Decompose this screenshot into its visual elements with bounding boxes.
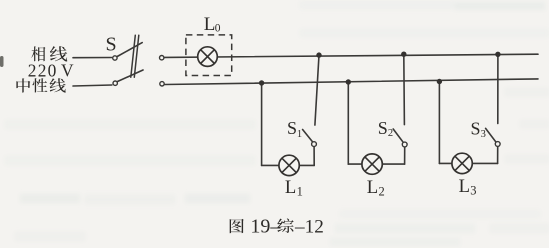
wire: neutral lead from 中性线 to switch	[73, 85, 112, 86]
branch 3: wire S3 to lamp level	[497, 147, 499, 164]
svg-text:2: 2	[388, 128, 393, 139]
branch 2: wire S2 to lamp level	[404, 147, 406, 164]
caption: 图 19-综-12	[230, 218, 294, 233]
svg-text:2: 2	[379, 184, 385, 198]
switch S pole B terminal right	[160, 82, 164, 86]
svg-text:0: 0	[215, 23, 221, 35]
switch S pole B terminal left	[113, 81, 117, 85]
svg-text:V: V	[61, 60, 74, 80]
switch S pole A terminal right	[160, 56, 164, 60]
label: 相线 (live wire)	[31, 46, 67, 61]
svg-text:S: S	[106, 34, 117, 56]
lamp L0 dashed enclosure	[186, 35, 232, 76]
switch S pole B blade	[118, 70, 144, 82]
wire: live bus (top horizontal)	[165, 54, 538, 57]
svg-text:220: 220	[28, 60, 58, 80]
lamp L2	[362, 154, 382, 174]
junction dot neutral bus / L3 riser	[437, 79, 442, 84]
branch 1: riser wire lamp to neutral bus	[261, 83, 263, 165]
switch S pole A blade	[117, 43, 142, 57]
svg-text:L: L	[204, 14, 216, 35]
branch 1: bottom wire through lamp L1	[262, 164, 315, 166]
label: 中性线 (neutral wire)	[16, 78, 65, 92]
switch S3 blade	[486, 128, 496, 142]
wire: neutral bus (bottom horizontal)	[165, 79, 538, 85]
switch S1 blade	[303, 130, 313, 142]
switch S link bar	[131, 35, 136, 77]
svg-text:1: 1	[297, 129, 302, 140]
lamp L1	[279, 155, 299, 175]
switch S3 hinge terminal	[495, 142, 500, 147]
svg-text:L: L	[285, 177, 296, 198]
svg-text:1: 1	[297, 184, 303, 198]
switch S2 hinge terminal	[402, 142, 407, 147]
svg-text:S: S	[287, 118, 297, 138]
branch 1: wire S1 to lamp level	[313, 147, 315, 166]
junction dot live bus / S2	[401, 52, 406, 57]
switch S pole A terminal left	[113, 56, 117, 60]
svg-text:3: 3	[481, 129, 486, 140]
lamp L0	[198, 47, 218, 67]
branch 2: bottom wire through lamp L2	[348, 163, 404, 165]
branch 2: wire drop from live bus to S2	[403, 54, 406, 124]
junction dot neutral bus / L2 riser	[346, 79, 351, 84]
branch 3: wire drop from live bus to S3	[497, 54, 499, 123]
branch 2: riser wire lamp to neutral bus	[347, 82, 349, 164]
junction dot neutral bus / L1 riser	[259, 80, 264, 85]
svg-text:L: L	[367, 177, 378, 198]
wire: live lead from 相线 to switch	[73, 57, 112, 59]
lamp L3	[452, 153, 472, 173]
branch 3: bottom wire through lamp L3	[439, 162, 497, 164]
svg-text:3: 3	[470, 184, 476, 198]
junction dot live bus / S3	[495, 52, 500, 57]
branch 1: wire drop from live bus to S1	[315, 55, 319, 125]
svg-text:L: L	[459, 176, 470, 197]
svg-text:S: S	[378, 118, 388, 138]
switch S1 hinge terminal	[312, 142, 317, 147]
svg-text:19–: 19–	[250, 216, 281, 238]
switch S2 blade	[393, 129, 403, 142]
svg-text:–12: –12	[294, 217, 324, 238]
svg-text:S: S	[471, 119, 481, 139]
junction dot live bus / S1	[316, 52, 321, 57]
branch 3: riser wire lamp to neutral bus	[438, 82, 440, 164]
